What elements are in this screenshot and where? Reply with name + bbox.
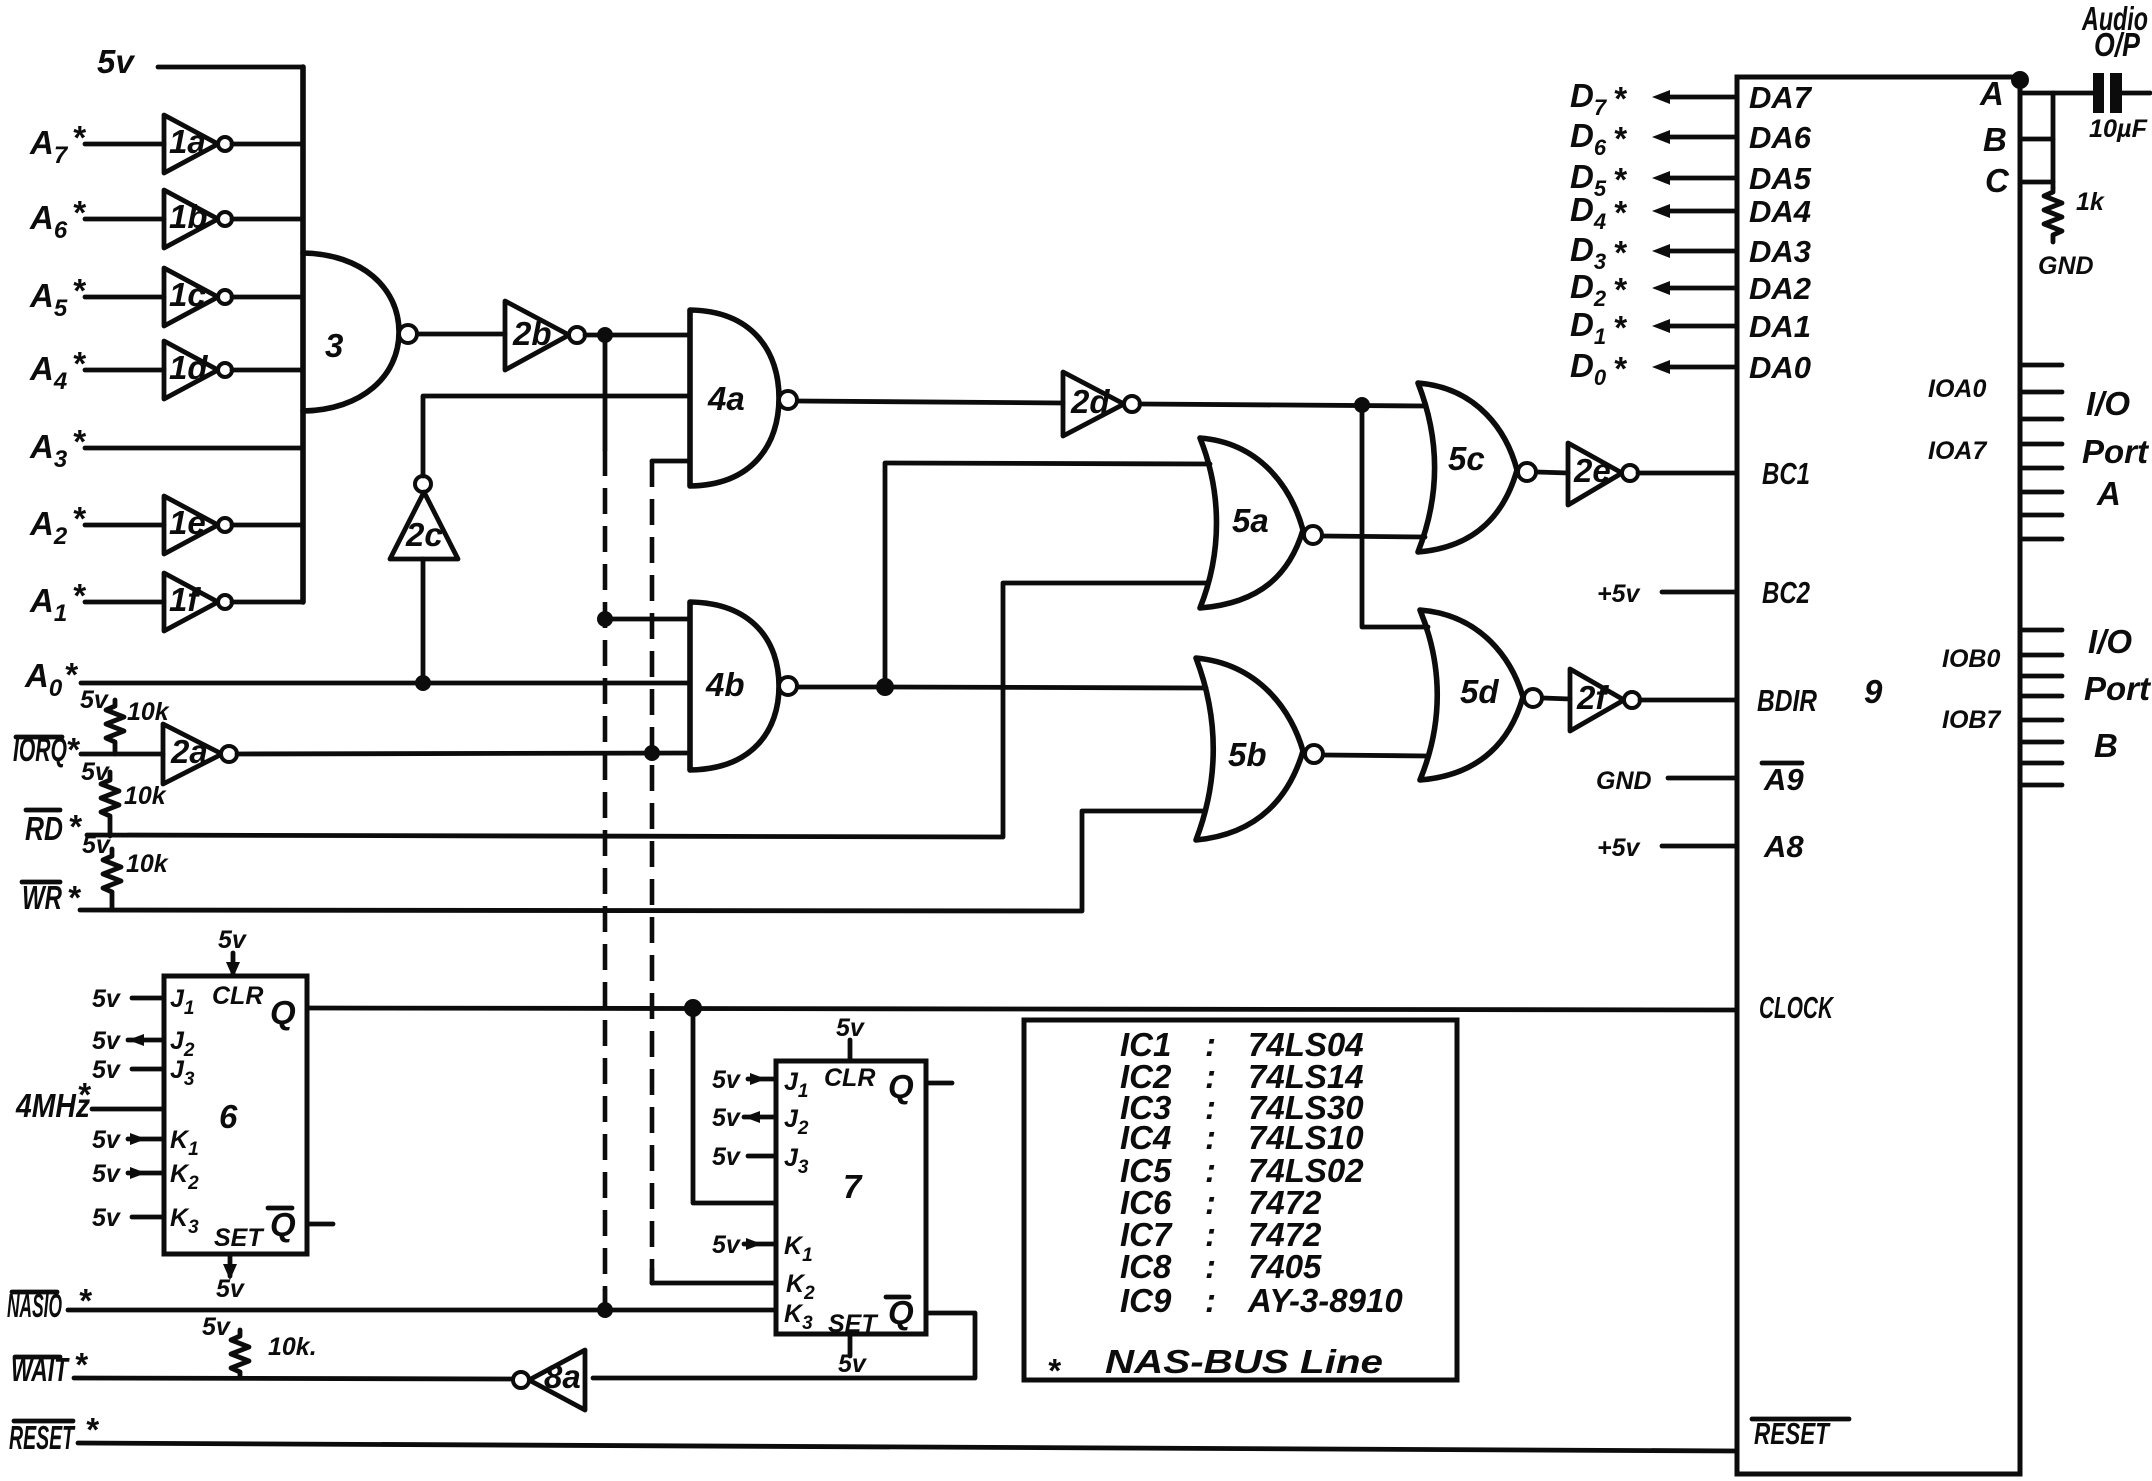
svg-text:10k: 10k (124, 782, 167, 810)
svg-text:2b: 2b (512, 315, 552, 352)
svg-text:DA4: DA4 (1749, 194, 1811, 229)
svg-text:*: * (1047, 1352, 1062, 1389)
svg-text:5v: 5v (92, 985, 122, 1013)
svg-text:+5v: +5v (1597, 834, 1642, 862)
svg-text::: : (1205, 1119, 1216, 1156)
svg-text:1k: 1k (2076, 188, 2105, 216)
svg-text:5v: 5v (712, 1104, 742, 1132)
svg-text:Q: Q (888, 1294, 914, 1331)
svg-text:A9: A9 (1763, 762, 1804, 797)
svg-text:5v: 5v (92, 1027, 122, 1055)
svg-text:5d: 5d (1460, 673, 1499, 710)
svg-text:1b: 1b (169, 198, 208, 235)
svg-text:*: * (1613, 271, 1628, 308)
svg-text:IC9: IC9 (1120, 1282, 1172, 1319)
svg-text:B: B (2094, 727, 2118, 764)
svg-text::: : (1205, 1282, 1216, 1319)
svg-text:IOA0: IOA0 (1928, 375, 1986, 403)
svg-text:I/O: I/O (2088, 623, 2132, 660)
svg-text:2c: 2c (405, 516, 443, 553)
svg-text:A: A (1979, 75, 2004, 112)
svg-text:*: * (72, 423, 87, 460)
svg-text:5v: 5v (838, 1350, 868, 1378)
svg-text:Port: Port (2082, 433, 2150, 470)
svg-text:*: * (1613, 120, 1628, 157)
svg-text:*: * (1613, 309, 1628, 346)
svg-text:GND: GND (2038, 252, 2094, 280)
svg-text:DA2: DA2 (1749, 271, 1811, 306)
svg-text:DA7: DA7 (1749, 80, 1813, 115)
svg-text:GND: GND (1596, 767, 1652, 795)
svg-text:DA1: DA1 (1749, 309, 1811, 344)
svg-text:5v: 5v (202, 1313, 232, 1341)
svg-text:1c: 1c (169, 276, 206, 313)
svg-text:*: * (72, 345, 87, 382)
svg-text:Port: Port (2084, 670, 2152, 707)
svg-text:*: * (72, 119, 87, 156)
svg-text:IOB7: IOB7 (1942, 706, 2001, 734)
svg-text:I/O: I/O (2086, 385, 2130, 422)
svg-text:*: * (1613, 80, 1628, 117)
svg-text:*: * (72, 194, 87, 231)
svg-text:*: * (1613, 194, 1628, 231)
svg-text:BC1: BC1 (1762, 456, 1810, 491)
svg-text:*: * (64, 656, 79, 693)
svg-text:Q: Q (270, 994, 296, 1031)
svg-text:10k.: 10k. (268, 1333, 317, 1361)
svg-text:A8: A8 (1763, 829, 1804, 864)
svg-text:2e: 2e (1573, 452, 1611, 489)
svg-text:CLR: CLR (824, 1064, 875, 1092)
svg-text:5v: 5v (712, 1231, 742, 1259)
svg-text:IC4: IC4 (1120, 1119, 1171, 1156)
svg-text:A: A (2096, 475, 2121, 512)
svg-text:5a: 5a (1232, 502, 1269, 539)
svg-text:3: 3 (325, 327, 343, 364)
svg-text:1e: 1e (169, 504, 206, 541)
svg-text:IOB0: IOB0 (1942, 645, 2000, 673)
svg-text:NAS-BUS Line: NAS-BUS Line (1105, 1343, 1383, 1380)
svg-text:*: * (1613, 350, 1628, 387)
svg-text:1f: 1f (169, 581, 201, 618)
svg-text:RD: RD (25, 810, 63, 847)
svg-text:*: * (67, 879, 82, 916)
svg-text:9: 9 (1864, 673, 1883, 710)
svg-text:*: * (72, 272, 87, 309)
svg-text:5v: 5v (92, 1160, 122, 1188)
svg-text:5v: 5v (712, 1143, 742, 1171)
svg-text:BDIR: BDIR (1757, 683, 1817, 718)
svg-text:SET: SET (214, 1224, 265, 1252)
svg-text:10µF: 10µF (2089, 115, 2148, 143)
svg-text:8a: 8a (544, 1358, 581, 1395)
svg-text:4b: 4b (705, 666, 745, 703)
svg-text:5b: 5b (1228, 736, 1267, 773)
svg-text:7405: 7405 (1248, 1248, 1322, 1285)
svg-text:5v: 5v (216, 1275, 246, 1303)
svg-text:7: 7 (843, 1168, 863, 1205)
svg-text:*: * (72, 577, 87, 614)
svg-text:5v: 5v (92, 1056, 122, 1084)
svg-text:*: * (1613, 234, 1628, 271)
svg-text:5v: 5v (712, 1066, 742, 1094)
svg-text:Q: Q (888, 1068, 914, 1105)
svg-text:5v: 5v (92, 1126, 122, 1154)
svg-text:AY-3-8910: AY-3-8910 (1247, 1282, 1403, 1319)
svg-text:Q: Q (270, 1206, 296, 1243)
svg-text:IC8: IC8 (1120, 1248, 1172, 1285)
svg-text:+5v: +5v (1597, 580, 1642, 608)
svg-text:DA5: DA5 (1749, 161, 1812, 196)
svg-text:RESET: RESET (9, 1419, 76, 1456)
svg-text:5c: 5c (1448, 440, 1485, 477)
svg-text:BC2: BC2 (1762, 575, 1810, 610)
svg-text:5v: 5v (82, 831, 112, 859)
svg-text:*: * (78, 1282, 93, 1319)
svg-text:4a: 4a (707, 380, 745, 417)
svg-text:2f: 2f (1576, 679, 1609, 716)
svg-text:*: * (1613, 161, 1628, 198)
svg-text:74LS10: 74LS10 (1248, 1119, 1364, 1156)
svg-text:IOA7: IOA7 (1928, 437, 1987, 465)
svg-text:DA0: DA0 (1749, 350, 1811, 385)
svg-text:O/P: O/P (2094, 26, 2141, 63)
svg-text:6: 6 (219, 1098, 238, 1135)
svg-text:SET: SET (828, 1310, 879, 1338)
svg-text:WR: WR (22, 879, 62, 916)
svg-text:DA3: DA3 (1749, 234, 1811, 269)
svg-text:5v: 5v (218, 926, 248, 954)
svg-text:*: * (68, 808, 83, 845)
svg-text:B: B (1983, 121, 2007, 158)
svg-text:10k: 10k (127, 698, 170, 726)
svg-text::: : (1205, 1248, 1216, 1285)
svg-text:5v: 5v (97, 43, 135, 80)
svg-text:2d: 2d (1070, 383, 1110, 420)
svg-text:10k: 10k (126, 850, 169, 878)
svg-text:*: * (72, 500, 87, 537)
svg-text:*: * (66, 731, 81, 768)
svg-text:C: C (1985, 162, 2010, 199)
svg-text:5v: 5v (92, 1204, 122, 1232)
svg-text:CLOCK: CLOCK (1759, 990, 1835, 1025)
svg-text:DA6: DA6 (1749, 120, 1812, 155)
svg-text:CLR: CLR (212, 982, 263, 1010)
svg-text:2a: 2a (170, 733, 208, 770)
svg-text:1a: 1a (169, 123, 206, 160)
svg-text:*: * (77, 1076, 92, 1113)
svg-text:1d: 1d (169, 349, 208, 386)
